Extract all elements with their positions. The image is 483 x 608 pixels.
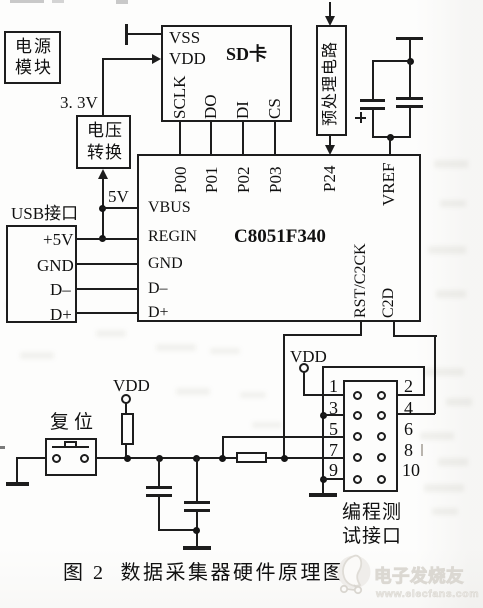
svg-text:www.elecfans.com: www.elecfans.com [375, 588, 479, 600]
svg-text:电子发烧友: 电子发烧友 [374, 566, 464, 586]
